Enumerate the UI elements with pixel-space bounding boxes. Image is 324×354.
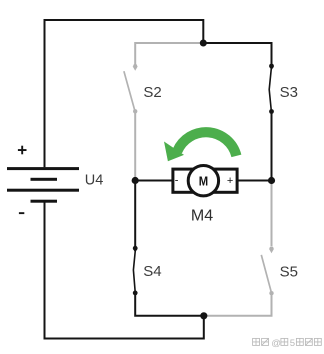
wire: S4 bottom to bottom junction (black)	[135, 293, 204, 316]
node: left motor node	[132, 177, 139, 184]
switch S3 blade (closed)	[269, 69, 271, 110]
wire: top junction to S2 top (gray)	[135, 43, 202, 65]
battery U4 plate 3 (long)	[7, 189, 79, 192]
switch S2 blade (open)	[124, 71, 135, 110]
wire: S3 bottom to right motor node (black)	[271, 112, 273, 181]
wire: battery positive to top rail and down to top junction	[45, 20, 204, 167]
battery U4 plate 2 (short)	[31, 178, 58, 181]
battery minus label	[19, 212, 24, 214]
wire: left motor lead	[135, 180, 171, 182]
wire: S5 bottom to bottom junction (gray)	[205, 295, 272, 316]
wire: bottom junction to battery negative	[45, 203, 204, 339]
svg-text:+: +	[227, 175, 233, 187]
switch S3 top terminal	[269, 64, 274, 71]
svg-text:S3: S3	[280, 84, 298, 101]
svg-text:M4: M4	[191, 208, 213, 225]
battery U4 plate 1 (long, positive)	[7, 167, 79, 170]
svg-text:S4: S4	[143, 263, 161, 280]
wire: top junction to S3 top (black)	[203, 43, 271, 66]
battery U4 plate 4 (short, negative)	[31, 200, 58, 203]
svg-text:S5: S5	[280, 263, 298, 280]
switch S4 bottom terminal	[133, 291, 138, 296]
wire: right motor node to S5 top (gray)	[271, 181, 273, 247]
wire: left motor node to S4 top (black)	[134, 181, 136, 249]
svg-text:@: @	[271, 338, 281, 349]
rotation arrow head	[164, 142, 184, 162]
svg-text:U4: U4	[85, 172, 104, 188]
svg-text:5: 5	[290, 338, 295, 349]
switch S4 top terminal	[133, 246, 138, 253]
switch S5 top terminal	[269, 246, 274, 253]
switch S5 bottom terminal	[269, 291, 273, 295]
node: right motor node	[268, 177, 275, 184]
wire: S2 bottom to left motor node (gray)	[134, 112, 136, 181]
watermark: 头条@小5嵌入式	[253, 338, 269, 345]
switch S4 blade (closed)	[133, 251, 135, 292]
motor M4 body rectangle	[173, 169, 237, 192]
battery plus label	[18, 146, 27, 155]
switch S3 bottom terminal	[269, 109, 274, 114]
svg-text:-: -	[175, 175, 179, 187]
switch S2 bottom terminal	[133, 109, 137, 113]
svg-text:M: M	[199, 174, 208, 189]
node: bottom junction	[200, 312, 207, 319]
switch S5 blade (open)	[261, 255, 271, 292]
svg-text:S2: S2	[143, 84, 161, 101]
node: top junction	[200, 40, 207, 47]
rotation arrow (green, counterclockwise) arc	[177, 132, 236, 156]
motor M4 circle	[188, 166, 218, 196]
switch S2 top terminal	[133, 64, 138, 71]
wire: right motor lead	[238, 180, 271, 182]
